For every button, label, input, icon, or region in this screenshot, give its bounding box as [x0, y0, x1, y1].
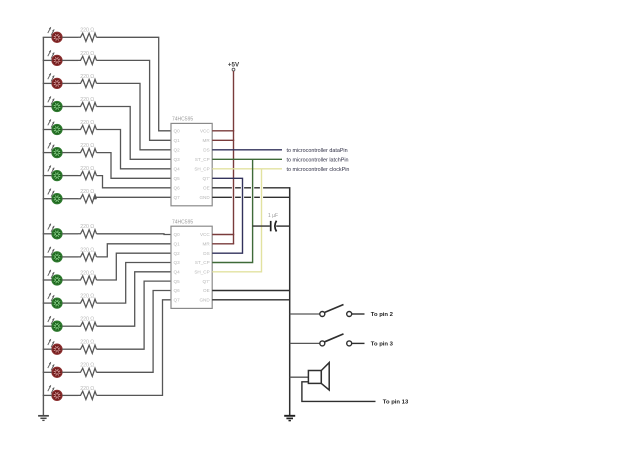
LED5 (green) with emission arrows	[48, 119, 62, 135]
svg-text:220 Ω: 220 Ω	[80, 224, 94, 230]
svg-text:220 Ω: 220 Ω	[80, 51, 94, 57]
wire bus to LED13	[43, 325, 52, 327]
svg-text:220 Ω: 220 Ω	[80, 270, 94, 276]
resistor R12 220 ohm	[78, 294, 97, 308]
svg-text:VCC: VCC	[200, 232, 210, 237]
wire LED10 to R10	[62, 256, 78, 258]
wire ground bus to switch S2	[290, 342, 320, 344]
svg-text:220 Ω: 220 Ω	[80, 28, 94, 34]
wire R13 to U2 Q4	[97, 272, 172, 326]
svg-text:220 Ω: 220 Ω	[80, 294, 94, 300]
wire R14 to U2 Q5	[97, 281, 172, 349]
wire: LED ground bus	[42, 37, 44, 416]
svg-text:220 Ω: 220 Ω	[80, 363, 94, 369]
resistor R8 220 ohm	[78, 189, 97, 203]
LED15 (red) with emission arrows	[48, 362, 62, 378]
wire bus to LED9	[43, 233, 52, 235]
LED3 (red) with emission arrows	[48, 73, 62, 89]
wire bus to LED15	[43, 371, 52, 373]
svg-text:To pin 3: To pin 3	[371, 342, 394, 348]
svg-text:SH_CP: SH_CP	[194, 167, 209, 172]
wire clock vertical to U2 SH_CP (yellow)	[212, 169, 261, 272]
wire bus to LED7	[43, 175, 52, 177]
wire bus to LED4	[43, 106, 52, 108]
switch S1 (SPST)	[320, 305, 352, 317]
svg-text:To pin 13: To pin 13	[383, 400, 409, 406]
svg-text:Q3: Q3	[174, 260, 181, 265]
wire bus to LED2	[43, 59, 52, 61]
wire U1 MR to +5V	[212, 139, 234, 141]
LED16 (red) with emission arrows	[48, 385, 62, 401]
wire U2 VCC to +5V	[212, 234, 234, 236]
svg-text:DS: DS	[203, 251, 209, 256]
svg-text:Q2: Q2	[174, 148, 181, 153]
svg-text:OE: OE	[203, 288, 210, 293]
wire R9 to U2 Q0	[97, 233, 172, 236]
wire R8 to U1 Q7	[94, 197, 171, 198]
switch S2 (SPST)	[320, 334, 352, 346]
svg-text:Q4: Q4	[174, 270, 181, 275]
svg-text:GND: GND	[199, 298, 210, 303]
op IC U1 74HC595 shift register	[171, 117, 212, 206]
wire R1 to U1 Q0	[97, 37, 172, 131]
speaker LS1	[308, 363, 329, 390]
svg-text:MR: MR	[203, 138, 211, 143]
svg-text:To pin 2: To pin 2	[371, 312, 394, 318]
wire speaker to pin 13	[302, 382, 376, 402]
svg-text:220 Ω: 220 Ω	[80, 247, 94, 253]
wire LED15 to R15	[62, 371, 78, 373]
svg-text:Q6: Q6	[174, 186, 181, 191]
svg-text:Q0: Q0	[174, 232, 181, 237]
wire R15 to U2 Q6	[97, 291, 172, 373]
resistor R5 220 ohm	[78, 120, 97, 134]
wire +5V red vertical	[233, 71, 235, 244]
wire LED3 to R3	[62, 82, 78, 84]
svg-text:Q7’: Q7’	[203, 279, 210, 284]
wire R16 to U2 Q7	[97, 300, 172, 396]
LED1 (red) with emission arrows	[48, 27, 62, 43]
svg-text:74HC595: 74HC595	[172, 219, 193, 225]
wire bus to LED3	[43, 82, 52, 84]
svg-text:Q4: Q4	[174, 167, 181, 172]
wire LED16 to R16	[62, 394, 78, 396]
wire U1 Q7' to U2 DS (serial link)	[212, 178, 242, 253]
wire R11 to U2 Q2	[97, 253, 172, 280]
svg-text:Q1: Q1	[174, 242, 181, 247]
svg-text:Q7: Q7	[174, 195, 181, 200]
ground GND2 (right bus)	[284, 416, 295, 421]
svg-text:Q3: Q3	[174, 157, 181, 162]
wire R10 to U2 Q1	[97, 244, 172, 257]
svg-text:GND: GND	[199, 195, 210, 200]
svg-text:Q6: Q6	[174, 288, 181, 293]
wire ground bus vertical	[289, 187, 291, 416]
svg-text:220 Ω: 220 Ω	[80, 317, 94, 323]
svg-text:SH_CP: SH_CP	[194, 270, 209, 275]
svg-text:to microcontroller latchPin: to microcontroller latchPin	[287, 157, 349, 163]
wire LED1 to R1	[62, 36, 78, 38]
svg-text:Q5: Q5	[174, 176, 181, 181]
wire U2 GND to ground bus	[212, 299, 290, 301]
svg-text:220 Ω: 220 Ω	[80, 120, 94, 126]
wire LED13 to R13	[62, 325, 78, 327]
LED12 (green) with emission arrows	[48, 293, 62, 309]
resistor R2 220 ohm	[78, 51, 97, 65]
wire LED6 to R6	[62, 152, 78, 154]
wire U1 ST_CP to latchPin (green)	[212, 158, 282, 160]
resistor R13 220 ohm	[78, 317, 97, 331]
LED4 (green) with emission arrows	[48, 96, 62, 112]
svg-text:220 Ω: 220 Ω	[80, 97, 94, 103]
svg-text:74HC595: 74HC595	[172, 117, 193, 123]
resistor R10 220 ohm	[78, 247, 97, 261]
wire bus to LED12	[43, 302, 52, 304]
wire U2 OE to ground bus	[212, 290, 290, 292]
resistor R16 220 ohm	[78, 386, 97, 400]
svg-text:ST_CP: ST_CP	[195, 260, 210, 265]
resistor R3 220 ohm	[78, 74, 97, 88]
svg-text:Q7’: Q7’	[203, 176, 210, 181]
wire switch S2 to pin label	[352, 342, 365, 344]
resistor R7 220 ohm	[78, 166, 97, 180]
wire bus to LED8	[43, 198, 52, 200]
svg-text:Q0: Q0	[174, 129, 181, 134]
wire R2 to U1 Q1	[97, 60, 172, 140]
wire bus to LED5	[43, 129, 52, 131]
wire bus to LED11	[43, 279, 52, 281]
resistor R15 220 ohm	[78, 363, 97, 377]
wire U2 MR to +5V	[212, 243, 234, 245]
svg-text:+5V: +5V	[228, 61, 240, 68]
wire R5 to U1 Q4	[97, 130, 172, 169]
LED9 (green) with emission arrows	[48, 223, 62, 239]
wire bus to LED16	[43, 394, 52, 396]
svg-text:MR: MR	[203, 242, 211, 247]
svg-text:220 Ω: 220 Ω	[80, 386, 94, 392]
wire LED2 to R2	[62, 59, 78, 61]
wire LED4 to R4	[62, 106, 78, 108]
LED10 (green) with emission arrows	[48, 246, 62, 262]
LED11 (green) with emission arrows	[48, 270, 62, 286]
svg-text:220 Ω: 220 Ω	[80, 74, 94, 80]
svg-text:1 µF: 1 µF	[268, 213, 278, 219]
op IC U2 74HC595 shift register	[171, 219, 212, 308]
LED14 (red) with emission arrows	[48, 339, 62, 354]
wire R12 to U2 Q3	[97, 263, 172, 304]
wire LED12 to R12	[62, 302, 78, 304]
wire LED9 to R9	[62, 233, 78, 235]
svg-text:OE: OE	[203, 186, 210, 191]
svg-text:220 Ω: 220 Ω	[80, 189, 94, 195]
wire U1 OE to ground bus	[212, 187, 232, 189]
wire R7 to U1 Q6	[97, 176, 172, 188]
svg-text:Q2: Q2	[174, 251, 181, 256]
LED8 (green) with emission arrows	[48, 188, 62, 204]
svg-text:220 Ω: 220 Ω	[80, 340, 94, 346]
wire LED11 to R11	[62, 279, 78, 281]
wire U1 DS to dataPin (blue)	[212, 149, 282, 151]
LED13 (green) with emission arrows	[48, 316, 62, 332]
resistor R14 220 ohm	[78, 340, 97, 354]
svg-text:VCC: VCC	[200, 129, 210, 134]
svg-text:Q7: Q7	[174, 298, 181, 303]
wire R3 to U1 Q2	[97, 83, 172, 149]
svg-text:220 Ω: 220 Ω	[80, 166, 94, 172]
svg-text:Q1: Q1	[174, 138, 181, 143]
wire bus to LED1	[43, 36, 52, 38]
wire R4 to U1 Q3	[97, 107, 172, 160]
LED7 (green) with emission arrows	[48, 165, 62, 181]
svg-text:to microcontroller dataPin: to microcontroller dataPin	[287, 148, 348, 154]
svg-text:to microcontroller clockPin: to microcontroller clockPin	[287, 167, 350, 173]
svg-text:220 Ω: 220 Ω	[80, 143, 94, 149]
wire LED14 to R14	[62, 348, 78, 350]
+5V supply symbol	[228, 61, 240, 71]
wire R6 to U1 Q5	[97, 153, 172, 179]
svg-text:Q5: Q5	[174, 279, 181, 284]
wire bus to LED10	[43, 256, 52, 258]
wire U1 SH_CP to clockPin (yellow)	[212, 168, 282, 170]
resistor R11 220 ohm	[78, 270, 97, 284]
ground GND1 (left LED bus)	[38, 416, 49, 421]
LED2 (red) with emission arrows	[48, 50, 62, 66]
wire ground bus to switch S1	[290, 313, 320, 315]
resistor R4 220 ohm	[78, 97, 97, 111]
wire switch S1 to pin label	[352, 313, 365, 315]
svg-text:DS: DS	[203, 148, 209, 153]
wire ground bus to speaker	[290, 376, 309, 378]
wire latch vertical to U2 ST_CP (green)	[212, 159, 252, 262]
resistor R1 220 ohm	[78, 28, 97, 42]
wire LED5 to R5	[62, 129, 78, 131]
capacitor C1 1uF	[253, 213, 290, 232]
wire LED8 to R8	[62, 198, 78, 200]
svg-text:ST_CP: ST_CP	[195, 157, 210, 162]
wire U1 VCC to +5V	[212, 130, 234, 132]
wire bus to LED6	[43, 152, 52, 154]
resistor R9 220 ohm	[78, 224, 97, 238]
wire LED7 to R7	[62, 175, 78, 177]
resistor R6 220 ohm	[78, 143, 97, 157]
wire bus to LED14	[43, 348, 52, 350]
wire U1 GND to ground bus	[212, 196, 232, 198]
LED6 (green) with emission arrows	[48, 142, 62, 158]
